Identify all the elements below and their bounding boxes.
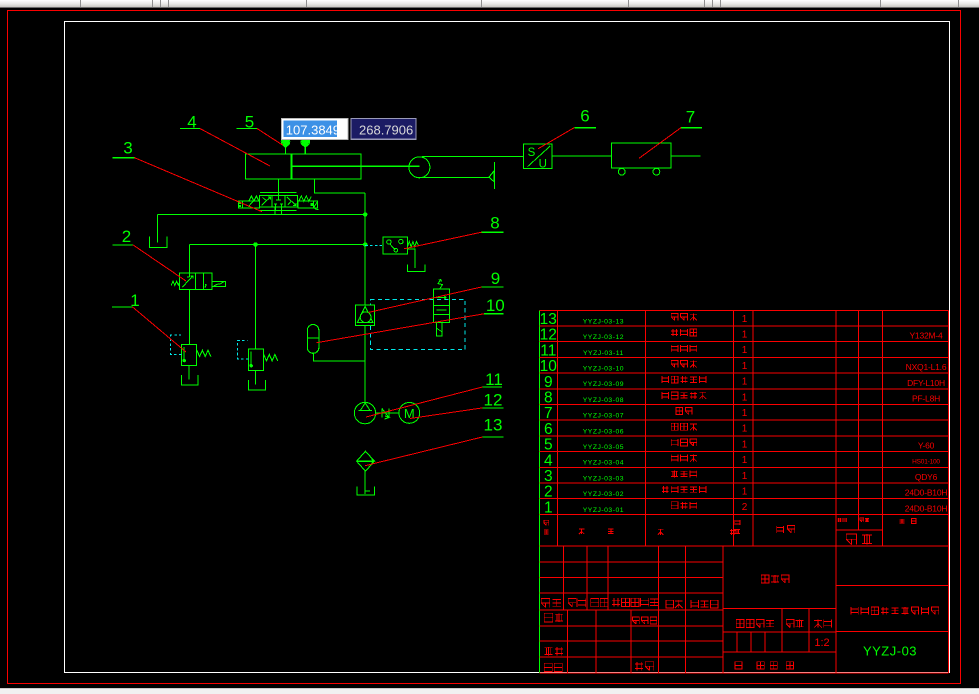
svg-text:268.7906: 268.7906: [359, 122, 413, 137]
svg-text:10: 10: [540, 358, 558, 375]
svg-text:10: 10: [486, 296, 505, 315]
wire cylinder left port down: [277, 179, 279, 195]
spring right of valve 3: [299, 196, 312, 201]
svg-text:QDY6: QDY6: [915, 472, 938, 482]
svg-text:YYZJ-03: YYZJ-03: [863, 644, 917, 659]
cylinder 4 piston: [290, 154, 292, 179]
leader 12: [410, 408, 482, 419]
svg-text:1: 1: [742, 377, 748, 388]
svg-text:YYZJ-03-10: YYZJ-03-10: [583, 365, 624, 372]
svg-text:6: 6: [580, 107, 589, 126]
dyninput navy box: [351, 118, 416, 139]
cart 7: [612, 143, 672, 168]
motor 12: [399, 403, 420, 424]
pilot dashed 1L: [171, 335, 182, 354]
title block texts: [541, 599, 549, 608]
leader 4: [200, 129, 270, 167]
svg-text:1: 1: [742, 314, 748, 325]
spring right of relay 8: [408, 242, 419, 247]
svg-text:YYZJ-03-04: YYZJ-03-04: [583, 460, 624, 467]
wire sensor to cart: [552, 155, 612, 157]
cylinder 4 rod: [292, 165, 419, 167]
svg-text:1: 1: [742, 471, 748, 482]
wire cylinder right port L: [314, 179, 365, 193]
junction dot: [364, 243, 367, 246]
svg-text:1: 1: [742, 439, 748, 450]
wire bus down to 1R: [255, 245, 257, 350]
cylinder 4 body: [245, 154, 360, 179]
junction dot: [254, 243, 257, 246]
svg-text:12: 12: [484, 391, 503, 410]
servo-valve 3 body: [259, 195, 297, 207]
filter 13: [357, 451, 375, 471]
svg-text:YYZJ-03-09: YYZJ-03-09: [583, 381, 624, 388]
gauge 5 at x=305.3: [302, 139, 308, 145]
spring right of 1L: [197, 350, 211, 356]
svg-text:7: 7: [686, 107, 695, 126]
parts table grid: [540, 309, 949, 311]
svg-text:24D0-B10H: 24D0-B10H: [905, 503, 948, 513]
svg-text:1: 1: [742, 392, 748, 403]
svg-text:YYZJ-03-13: YYZJ-03-13: [583, 318, 624, 325]
svg-text:3: 3: [544, 468, 553, 485]
svg-text:YYZJ-03-12: YYZJ-03-12: [583, 334, 624, 341]
leader 9: [369, 287, 482, 312]
svg-text:1: 1: [742, 486, 748, 497]
leader 7: [639, 128, 681, 159]
svg-text:1: 1: [742, 455, 748, 466]
title block lower grid: [540, 561, 724, 563]
svg-text:2: 2: [544, 484, 553, 501]
svg-text:YYZJ-03-01: YYZJ-03-01: [583, 507, 624, 514]
accumulator 10: [307, 325, 319, 354]
svg-text:Y132M-4: Y132M-4: [909, 331, 943, 341]
svg-text:HS01-100: HS01-100: [912, 458, 940, 465]
leader 3: [134, 158, 262, 212]
wire cart right: [671, 155, 700, 157]
tank under filter: [357, 486, 374, 495]
svg-text:1: 1: [742, 345, 748, 356]
svg-text:1: 1: [742, 361, 748, 372]
svg-text:3: 3: [123, 139, 132, 158]
svg-text:11: 11: [485, 370, 503, 389]
svg-text:YYZJ-03-08: YYZJ-03-08: [583, 397, 624, 404]
gauge 5 at x=285.5: [282, 139, 288, 145]
svg-text:13: 13: [484, 416, 503, 435]
solenoid left of valve 3: [238, 201, 259, 208]
svg-text:4: 4: [544, 452, 553, 469]
svg-text:11: 11: [540, 342, 556, 359]
leader 6: [538, 128, 574, 149]
svg-text:2: 2: [742, 502, 748, 513]
spring right of 1R: [264, 355, 278, 361]
pump 11: [354, 402, 375, 423]
wire bus to tank left: [156, 214, 158, 242]
tank symbol top-left: [150, 237, 168, 248]
pulley circle: [409, 157, 430, 178]
prop-valve lower block: [436, 323, 442, 337]
pilot dashed 1R: [238, 340, 249, 359]
rope bottom: [418, 176, 489, 178]
tank under 1R: [255, 371, 257, 385]
relay drain to tank: [407, 249, 415, 268]
svg-text:8: 8: [544, 389, 553, 406]
check-valve 9: [356, 305, 375, 325]
svg-text:YYZJ-03-06: YYZJ-03-06: [583, 428, 624, 435]
wire valve2 down: [189, 290, 191, 345]
dashed pilot line to relay 8: [365, 244, 383, 246]
svg-text:5: 5: [544, 437, 553, 454]
leader 1: [133, 307, 187, 352]
coupling symbol: [382, 408, 389, 419]
leader 2: [133, 245, 186, 281]
relief-valve 1R body: [248, 349, 263, 371]
dyninput white box: [281, 118, 348, 139]
wire filter to tank: [364, 471, 366, 494]
svg-text:8: 8: [490, 213, 499, 232]
svg-text:DFY-L10H: DFY-L10H: [907, 378, 945, 388]
solenoid right of valve 2: [212, 281, 226, 286]
rope top: [422, 156, 523, 158]
svg-text:2: 2: [122, 227, 131, 246]
svg-text:9: 9: [544, 374, 553, 391]
svg-text:24D0-B10H: 24D0-B10H: [905, 488, 948, 498]
svg-text:13: 13: [540, 311, 557, 328]
svg-text:YYZJ-03-03: YYZJ-03-03: [583, 475, 624, 482]
svg-text:YYZJ-03-05: YYZJ-03-05: [583, 444, 624, 451]
pressure-relay 8 box: [383, 237, 408, 254]
wire pilot bus lower: [190, 244, 366, 246]
leader 8: [404, 232, 482, 249]
prop-valve zigzag solenoid mark: [438, 279, 442, 289]
wire bus down to valve 2: [189, 245, 191, 274]
wire main pressure line down: [364, 193, 366, 305]
anchor symbol: [493, 162, 495, 189]
relief-valve 1L body: [181, 345, 196, 366]
leader 13: [365, 437, 482, 466]
prop-valve body: [434, 289, 450, 322]
svg-text:YYZJ-03-07: YYZJ-03-07: [583, 413, 624, 420]
solenoid right of valve 3: [298, 201, 318, 208]
parts table left border (green): [539, 310, 541, 673]
svg-text:YYZJ-03-02: YYZJ-03-02: [583, 491, 624, 498]
svg-text:9: 9: [491, 269, 500, 288]
svg-text:Y-60: Y-60: [918, 441, 935, 451]
spring left of valve 2: [171, 281, 179, 285]
leader 5: [257, 129, 283, 146]
shaft pump-motor: [376, 412, 399, 414]
wire tank bus upper: [157, 213, 365, 215]
svg-text:U: U: [539, 158, 547, 170]
svg-text:1:2: 1:2: [814, 637, 829, 649]
svg-text:107.3849: 107.3849: [286, 122, 340, 137]
svg-text:NXQ1-L1.6: NXQ1-L1.6: [906, 362, 947, 372]
svg-text:12: 12: [540, 327, 557, 344]
wire check valve down to pump: [364, 326, 366, 403]
svg-text:7: 7: [544, 405, 553, 422]
junction dot: [364, 213, 367, 216]
sensor U6 S/U box: [523, 144, 552, 169]
svg-text:1: 1: [742, 424, 748, 435]
spring left of valve 3: [249, 196, 259, 201]
svg-text:1: 1: [742, 408, 748, 419]
svg-text:YYZJ-03-11: YYZJ-03-11: [583, 350, 624, 357]
leader 10: [317, 314, 484, 343]
leader 11: [366, 387, 482, 417]
svg-text:PF-L8H: PF-L8H: [912, 393, 940, 403]
svg-text:6: 6: [544, 421, 553, 438]
svg-text:1: 1: [544, 499, 553, 516]
svg-text:S: S: [528, 147, 536, 159]
tank under 1L: [188, 366, 190, 380]
parts header: [544, 520, 549, 525]
dashed enclosure box: [370, 299, 465, 349]
wire valve3 ports to bus: [274, 207, 276, 214]
solenoid-valve 2 body: [179, 273, 212, 290]
svg-text:1: 1: [742, 329, 748, 340]
